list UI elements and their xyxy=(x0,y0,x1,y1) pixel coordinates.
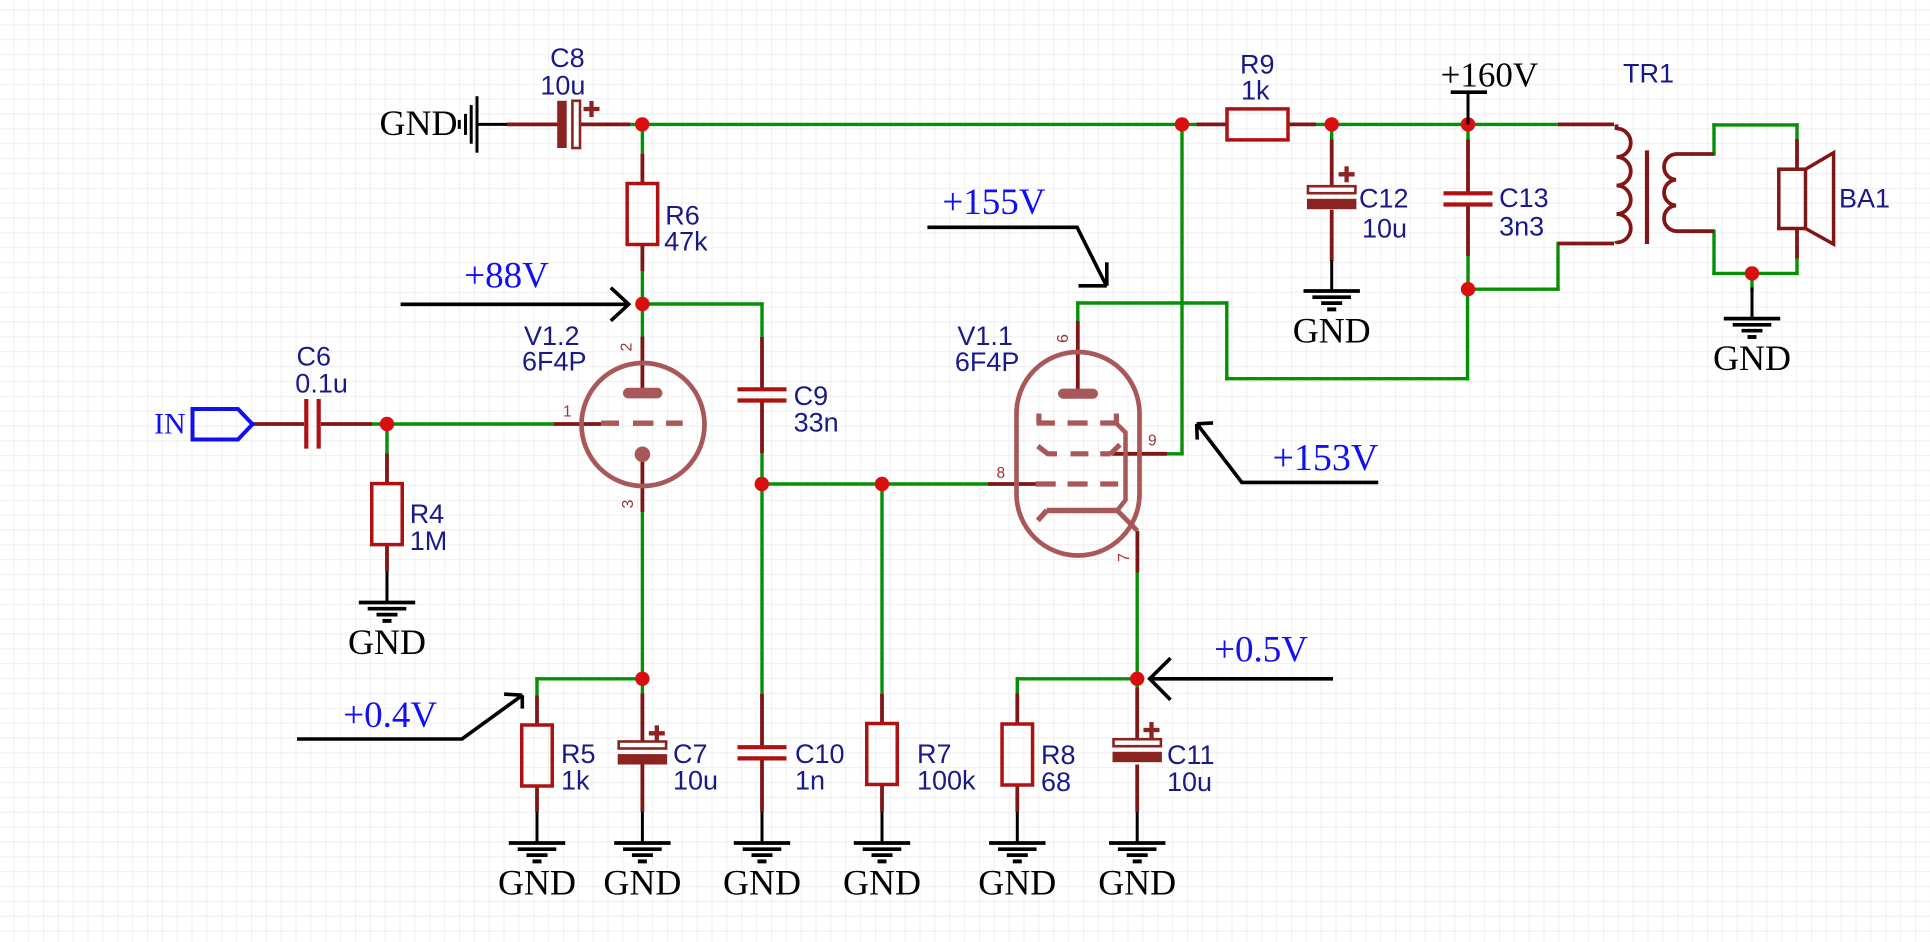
svg-text:C7: C7 xyxy=(673,739,708,769)
svg-text:GND: GND xyxy=(1713,338,1791,378)
svg-text:100k: 100k xyxy=(917,766,976,796)
svg-text:1: 1 xyxy=(563,404,572,421)
svg-text:R7: R7 xyxy=(917,739,952,769)
svg-text:6F4P: 6F4P xyxy=(522,346,587,376)
svg-text:+0.5V: +0.5V xyxy=(1214,630,1308,671)
svg-text:9: 9 xyxy=(1148,433,1157,450)
svg-text:C10: C10 xyxy=(795,739,845,769)
svg-text:10u: 10u xyxy=(673,766,718,796)
svg-text:1k: 1k xyxy=(561,766,590,796)
svg-text:C6: C6 xyxy=(297,341,332,371)
svg-text:1n: 1n xyxy=(795,766,825,796)
svg-text:10u: 10u xyxy=(1362,214,1407,244)
svg-text:R4: R4 xyxy=(410,499,445,529)
svg-text:47k: 47k xyxy=(664,227,708,257)
svg-text:C13: C13 xyxy=(1499,183,1549,213)
svg-text:+0.4V: +0.4V xyxy=(343,695,437,736)
svg-text:C11: C11 xyxy=(1167,740,1215,770)
svg-text:6: 6 xyxy=(1055,334,1072,343)
svg-text:1k: 1k xyxy=(1241,75,1270,105)
svg-text:GND: GND xyxy=(348,622,426,662)
svg-text:GND: GND xyxy=(843,862,921,902)
svg-text:7: 7 xyxy=(1116,553,1133,562)
svg-text:3n3: 3n3 xyxy=(1499,212,1544,242)
svg-text:IN: IN xyxy=(154,408,186,441)
svg-text:33n: 33n xyxy=(794,407,839,437)
svg-text:+155V: +155V xyxy=(942,182,1045,223)
svg-text:6F4P: 6F4P xyxy=(955,347,1020,377)
svg-text:10u: 10u xyxy=(1167,767,1212,797)
svg-text:3: 3 xyxy=(620,500,637,509)
svg-text:GND: GND xyxy=(723,862,801,902)
svg-text:68: 68 xyxy=(1041,767,1071,797)
svg-text:+88V: +88V xyxy=(464,256,549,297)
svg-text:R5: R5 xyxy=(561,739,596,769)
svg-text:GND: GND xyxy=(1293,310,1371,350)
svg-text:+153V: +153V xyxy=(1273,437,1379,479)
svg-text:TR1: TR1 xyxy=(1623,59,1674,89)
svg-text:GND: GND xyxy=(978,862,1056,902)
svg-text:R8: R8 xyxy=(1041,740,1076,770)
svg-text:C8: C8 xyxy=(550,43,585,73)
svg-text:GND: GND xyxy=(380,103,458,143)
svg-text:1M: 1M xyxy=(410,526,448,556)
svg-text:GND: GND xyxy=(603,862,681,902)
svg-text:GND: GND xyxy=(1098,862,1176,902)
svg-text:C12: C12 xyxy=(1359,184,1409,214)
svg-text:2: 2 xyxy=(619,343,636,352)
svg-text:8: 8 xyxy=(997,465,1006,482)
svg-text:0.1u: 0.1u xyxy=(295,368,348,398)
svg-text:BA1: BA1 xyxy=(1839,184,1890,214)
svg-text:+160V: +160V xyxy=(1441,55,1539,94)
svg-text:10u: 10u xyxy=(540,71,585,101)
svg-text:GND: GND xyxy=(498,862,576,902)
